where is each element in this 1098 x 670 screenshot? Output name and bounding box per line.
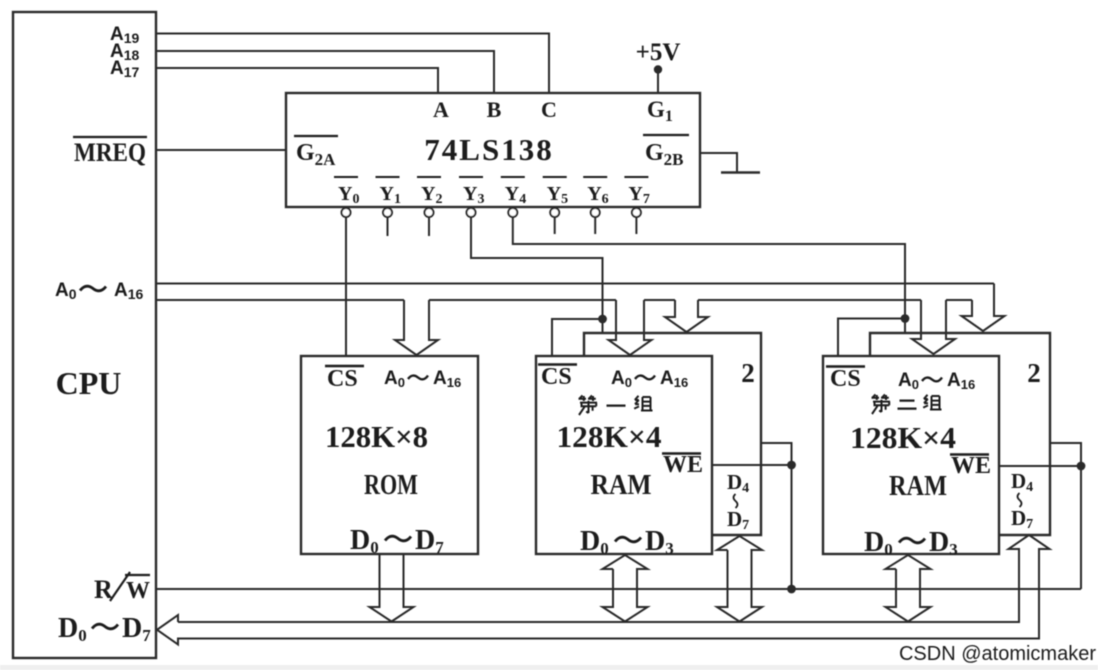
74LS138 decoder U1 box [286,93,700,207]
svg-text:Y5: Y5 [547,183,568,207]
overlines Y0-Y7 [334,176,648,178]
svg-text:G2B: G2B [645,140,684,169]
svg-text:128K×8: 128K×8 [325,419,428,454]
RAM1 WE wire [712,464,792,466]
address bus lower line segment 1 [156,299,404,301]
wire Y3 to RAM1 CS [471,217,603,333]
wire A18 to B input [156,51,494,93]
svg-text:D0: D0 [864,527,893,559]
RAM2 second chip outline [870,333,1050,535]
RAM2 second chip WE wire [1050,443,1081,589]
wire Y5 stub [554,217,556,234]
wire G2B to ground [700,153,737,172]
junction Y3 node [599,316,606,323]
svg-text:D4: D4 [1011,469,1033,495]
svg-text:A16: A16 [114,280,144,302]
wire Y4 to RAM2 CS [513,217,905,333]
ROM data bus arrow D0-D7 [370,554,414,622]
RAM2 data arrow D0-D3 [886,555,931,622]
svg-text:Y7: Y7 [628,183,649,207]
svg-text:74LS138: 74LS138 [424,132,553,167]
svg-text:D7: D7 [727,507,749,533]
svg-text:Y6: Y6 [587,183,608,207]
svg-text:CSDN @atomicmaker: CSDN @atomicmaker [899,643,1096,665]
svg-text:Y2: Y2 [421,183,442,207]
bottom border line [0,665,1098,670]
RAM1 data arrow D4-D7 [717,536,762,622]
pin Y4 circle [508,208,517,217]
svg-text:+5V: +5V [636,39,681,66]
CPU box [13,12,156,658]
svg-text:128K×4: 128K×4 [557,419,662,454]
svg-text:D3: D3 [929,527,958,559]
svg-text:D4: D4 [727,470,749,496]
svg-text:CS: CS [541,364,572,390]
wire Y3 branch to RAM1 inner CS pin [552,319,603,356]
svg-text:RAM: RAM [591,469,652,501]
svg-text:RAM: RAM [889,470,947,502]
junction +5V node [655,66,661,72]
svg-text:W: W [126,578,150,604]
bus arrow into RAM2 second chip address port [962,284,1005,332]
address bus lower line segment 2 [429,299,616,301]
svg-text:CS: CS [327,366,358,392]
wire Y0 to ROM CS [345,217,347,356]
svg-text:WE: WE [951,453,991,479]
wire A19 to C input [156,34,549,94]
RAM1 data arrow D0-D3 [603,555,648,622]
svg-text:D3: D3 [645,526,674,558]
labels Y0-Y7 [338,183,650,207]
pin Y7 circle [632,208,641,217]
wire A17 to A input [156,68,438,93]
bus arrow into RAM2 address port [912,300,955,354]
+5V power stub to G1 [657,69,659,93]
pin Y6 circle [591,208,600,217]
wire Y2 stub [428,217,430,236]
data bus D0-D7 with CPU arrow and RAM2 D4-D7 arrow [157,535,1050,645]
bus arrow into RAM1 address port [609,300,652,355]
svg-text:CS: CS [830,366,861,392]
svg-text:A0: A0 [898,370,919,392]
svg-text:ROM: ROM [364,469,418,501]
svg-text:D0: D0 [580,526,609,558]
svg-text:Y0: Y0 [338,183,359,207]
svg-text:WE: WE [663,452,703,478]
svg-text:A16: A16 [947,370,975,392]
svg-text:D7: D7 [1011,506,1033,532]
svg-text:128K×4: 128K×4 [850,420,956,455]
svg-text:A0: A0 [55,280,77,302]
svg-text:D7: D7 [122,613,151,645]
svg-text:D0: D0 [58,613,87,645]
RAM1 chip box [536,356,712,554]
svg-text:A: A [433,97,449,122]
svg-text:2: 2 [1027,358,1041,388]
svg-text:MREQ: MREQ [74,138,146,167]
junction RAM1 WE to RW line node [788,586,795,593]
address bus lower line segment 5 [946,299,972,301]
svg-text:A0: A0 [384,368,405,390]
bus arrow into ROM address port [395,300,438,355]
label group1 hanzi [579,396,598,416]
junction Y4 node [902,315,909,322]
junction RAM1 WE node [788,462,795,469]
pin Y3 circle [467,208,476,217]
bus arrow into RAM1 second chip address port [665,300,708,332]
svg-text:A16: A16 [660,368,688,390]
wire Y1 stub [387,217,389,236]
svg-text:G2A: G2A [296,140,336,169]
RAM2 WE wire [999,465,1081,467]
svg-text:G1: G1 [647,97,673,125]
svg-text:C: C [541,97,557,122]
junction RAM2 WE node [1078,463,1085,470]
svg-text:D7: D7 [415,525,444,557]
wire MREQ to G2A [156,149,286,151]
RAM2 chip box [823,356,999,554]
svg-text:A16: A16 [433,368,461,390]
svg-text:Y4: Y4 [505,183,526,207]
pin Y1 circle [383,208,392,217]
wire Y7 stub [635,217,637,234]
svg-text:A0: A0 [611,368,632,390]
pin Y0 circle [342,208,351,217]
svg-text:D0: D0 [350,525,379,557]
wire Y6 stub [594,217,596,234]
svg-text:Y3: Y3 [463,183,484,207]
RAM1 second chip WE wire [761,443,792,589]
address bus lower line segment 3 [644,299,675,301]
RAM1 second chip outline [584,333,761,535]
address bus lower line segment 4 [698,299,921,301]
address bus upper line A0-A16 [156,283,994,285]
ground symbol [721,171,760,173]
svg-text:2: 2 [741,358,755,388]
R/W control line [156,588,1081,590]
svg-text:CPU: CPU [56,365,122,401]
wire Y4 branch to RAM2 inner CS pin [838,319,905,357]
pin Y2 circle [425,208,434,217]
label group2 hanzi [872,395,891,415]
pin Y5 circle [550,208,559,217]
svg-text:Y1: Y1 [380,183,401,207]
ROM chip box [301,356,478,554]
svg-text:B: B [487,97,502,122]
